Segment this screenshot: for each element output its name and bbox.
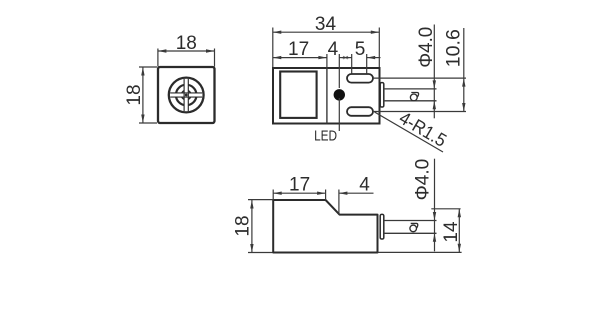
dim 18 bottom-left: arrows bbox=[250, 200, 253, 253]
dim 17: arrows bbox=[273, 56, 327, 59]
svg-text:17: 17 bbox=[288, 39, 309, 60]
cable letter d (rotated) bbox=[410, 93, 418, 101]
LED dot bbox=[334, 89, 345, 100]
dim phi4.0 bottom: arrows bbox=[433, 212, 436, 242]
dim 18 top: arrows bbox=[158, 49, 215, 52]
dim phi4.0 middle: dimension line bbox=[433, 25, 435, 119]
svg-text:34: 34 bbox=[315, 14, 337, 35]
crosshair erase bars bbox=[184, 79, 188, 111]
dim 18 bottom-left: extension lines bbox=[248, 200, 273, 253]
slot extension lines right bbox=[373, 78, 466, 111]
dim 18 left: arrows bbox=[141, 67, 144, 123]
dim 14: extension lines bbox=[378, 209, 462, 253]
sensor body front square bbox=[158, 67, 215, 123]
dim phi4.0 bottom: dimension line bbox=[434, 159, 436, 252]
cable nub bottom view bbox=[380, 214, 384, 239]
svg-text:14: 14 bbox=[441, 221, 462, 243]
dim 18 top: dimension line bbox=[158, 50, 215, 52]
dim 34: extension lines bbox=[273, 28, 380, 68]
cable letter d bottom (rotated) bbox=[410, 223, 418, 231]
svg-text:LED: LED bbox=[314, 128, 337, 145]
sensor body outline bbox=[273, 200, 377, 253]
dim 17 bottom: arrows bbox=[273, 192, 325, 195]
cable lines bottom view bbox=[384, 221, 437, 234]
svg-text:18: 18 bbox=[232, 215, 253, 236]
dim 17/4/5 extension lines bbox=[327, 54, 367, 88]
svg-text:18: 18 bbox=[124, 84, 145, 105]
sensor face middle circle bbox=[176, 85, 197, 106]
svg-text:4: 4 bbox=[359, 174, 370, 195]
housing parting line bbox=[326, 68, 328, 124]
mounting slot top bbox=[347, 74, 373, 83]
dim 17: dimension line bbox=[273, 57, 327, 59]
cable lines bbox=[384, 89, 437, 101]
mounting slot bottom bbox=[347, 107, 373, 116]
svg-text:18: 18 bbox=[176, 33, 197, 54]
leader 4-R1.5 bbox=[375, 112, 444, 152]
dim 34: dimension line bbox=[273, 31, 380, 33]
dim 10.6: arrows bbox=[462, 78, 465, 111]
dim 4/5 outside arrow pair bbox=[339, 57, 351, 59]
cable nub bbox=[380, 83, 384, 107]
dim 18 left: extension lines bbox=[139, 67, 157, 123]
LED leader line bbox=[338, 98, 340, 131]
dim 10.6: dimension line bbox=[463, 28, 465, 112]
svg-text:17: 17 bbox=[289, 175, 310, 196]
dim 4 bottom: extension line bbox=[338, 190, 340, 216]
dim 34: arrows bbox=[273, 31, 380, 34]
dim phi4.0 middle: arrows bbox=[433, 80, 436, 109]
dim 5 right arrow and tail bbox=[367, 57, 381, 59]
svg-text:Φ4.0: Φ4.0 bbox=[413, 159, 434, 201]
dim 17 bottom: dimension line bbox=[273, 192, 325, 194]
svg-text:Φ4.0: Φ4.0 bbox=[416, 27, 437, 68]
sensing face window bbox=[280, 72, 316, 118]
dim 17 bottom: extension lines bbox=[273, 190, 325, 201]
sensor face inner circle bbox=[181, 90, 191, 100]
dim 18 top: extension lines bbox=[158, 49, 215, 67]
dim 18 bottom-left: dimension line bbox=[251, 200, 253, 253]
svg-text:10.6: 10.6 bbox=[444, 29, 465, 67]
sensor body rectangle bbox=[273, 68, 380, 124]
svg-text:5: 5 bbox=[355, 39, 366, 60]
dim 14: arrows bbox=[458, 209, 461, 253]
svg-text:4: 4 bbox=[328, 39, 339, 60]
dim 18 left: dimension line bbox=[142, 67, 144, 123]
sensor face outer circle bbox=[169, 78, 204, 113]
crosshair outlines bbox=[170, 79, 202, 111]
dim 14: dimension line bbox=[458, 209, 460, 253]
dim 4 bottom: dimension line with arrow bbox=[339, 192, 374, 194]
